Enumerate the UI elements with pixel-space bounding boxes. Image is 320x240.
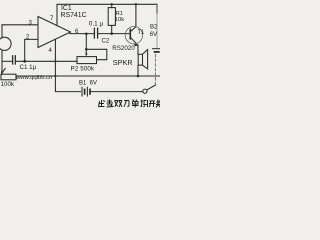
- svg-text:SPKR: SPKR: [113, 58, 133, 67]
- svg-text:www.qqibb.cn: www.qqibb.cn: [15, 75, 52, 81]
- svg-text:C2: C2: [102, 38, 110, 44]
- svg-text:0.1 µ: 0.1 µ: [89, 21, 104, 28]
- svg-text:6V: 6V: [150, 32, 157, 38]
- svg-text:B1 6V: B1 6V: [79, 80, 97, 86]
- svg-text:RS741C: RS741C: [61, 12, 87, 19]
- svg-text:RS2020: RS2020: [112, 45, 135, 52]
- svg-text:T1: T1: [137, 30, 145, 36]
- svg-text:P2 500k: P2 500k: [71, 65, 96, 72]
- svg-text:B2: B2: [150, 24, 158, 30]
- svg-text:100k: 100k: [1, 81, 15, 88]
- svg-text:10k: 10k: [115, 17, 124, 23]
- svg-text:C1 1µ: C1 1µ: [20, 64, 37, 71]
